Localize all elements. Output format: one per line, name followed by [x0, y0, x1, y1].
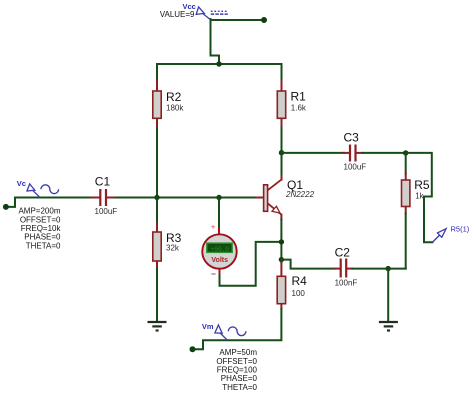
voltmeter minus mark — [211, 273, 215, 275]
wire Vcc vertical with jog to top bus — [211, 19, 220, 63]
svg-text:C2: C2 — [335, 246, 351, 260]
wire input stub from Vc terminal — [6, 198, 15, 207]
junction dot collector node — [279, 150, 284, 155]
value labels Vm parameters — [216, 348, 257, 392]
svg-text:FREQ=10k: FREQ=10k — [21, 224, 62, 233]
value label 180k — [166, 104, 184, 113]
wire C3 row left — [282, 152, 350, 154]
transistor Q1 — [264, 179, 282, 214]
wire R5 top lead — [405, 153, 407, 180]
svg-text:OFFSET=0: OFFSET=0 — [20, 215, 61, 224]
wire R2 top lead — [156, 64, 158, 91]
svg-text:R1: R1 — [291, 89, 307, 103]
wire R3 top lead — [156, 198, 158, 233]
wire voltmeter minus lead and return to emitter — [220, 242, 282, 286]
label Q1 — [287, 178, 303, 192]
svg-text:100uF: 100uF — [344, 163, 367, 172]
value label 100nF — [335, 278, 358, 287]
label Vc — [17, 179, 26, 188]
svg-text:Vc: Vc — [17, 179, 26, 188]
junction dot emitter/voltmeter return — [279, 239, 284, 244]
value label 100 — [292, 289, 306, 298]
wire R1 bottom lead — [281, 119, 283, 153]
value label 32k — [166, 244, 180, 253]
svg-text:OFFSET=0: OFFSET=0 — [216, 357, 257, 366]
svg-text:FREQ=100: FREQ=100 — [217, 366, 258, 375]
wire emitter vertical — [280, 215, 282, 260]
junction dot top bus — [216, 61, 221, 66]
voltage probe R5(1) — [432, 229, 446, 243]
value label 100uF (C1) — [95, 207, 118, 216]
wire base row left of C1 — [15, 197, 100, 199]
svg-text:R2: R2 — [166, 90, 182, 104]
svg-text:C1: C1 — [95, 174, 111, 188]
label R1 — [291, 89, 307, 103]
wire R4 top lead — [280, 260, 282, 277]
value labels Vc parameters — [18, 207, 61, 251]
value label 100uF (C3) — [344, 163, 367, 172]
svg-text:R5(1): R5(1) — [451, 225, 470, 234]
label Vcc — [183, 2, 196, 11]
value label 1.6k — [291, 103, 307, 112]
resistor R1 — [277, 91, 285, 118]
svg-text:R4: R4 — [292, 274, 308, 288]
wire C3 row right — [356, 152, 406, 154]
junction dot C3/R5 node — [403, 150, 408, 155]
svg-text:R5: R5 — [414, 178, 430, 192]
svg-text:+00.0: +00.0 — [211, 246, 229, 253]
svg-text:Vm: Vm — [202, 322, 214, 331]
svg-text:1.6k: 1.6k — [291, 103, 307, 112]
generator Vm probe — [215, 325, 246, 340]
wire R4 bottom lead to Vm — [193, 304, 282, 350]
svg-text:VALUE=9: VALUE=9 — [160, 10, 195, 19]
label R2 — [166, 90, 182, 104]
node dot Vcc wire end — [261, 17, 267, 23]
terminal dot Vm — [190, 346, 196, 352]
svg-text:1k: 1k — [415, 192, 424, 201]
wire output node to probe corner — [406, 153, 433, 242]
svg-text:C3: C3 — [344, 130, 360, 144]
svg-text:100uF: 100uF — [95, 207, 118, 216]
wire base row C1 to Q1 base — [107, 197, 264, 199]
wire R5 bottom lead — [405, 207, 407, 269]
label C1 — [95, 174, 111, 188]
generator Vc probe — [27, 184, 59, 197]
capacitor C3 — [350, 145, 356, 162]
wire C2 to output node — [347, 268, 388, 270]
wire C2 node to R5 bottom — [388, 268, 406, 270]
svg-text:Volts: Volts — [211, 257, 228, 264]
terminal dot Vc — [3, 204, 9, 210]
wire Vcc horizontal top — [211, 19, 265, 21]
ground (below C2 node) — [379, 322, 398, 331]
junction dot C2/ground node — [386, 266, 391, 271]
svg-text:2N2222: 2N2222 — [285, 190, 315, 199]
label R4 — [292, 274, 308, 288]
svg-text:100: 100 — [292, 289, 306, 298]
svg-text:PHASE=0: PHASE=0 — [221, 374, 258, 383]
wire R1 top lead — [281, 64, 283, 91]
wire top supply bus — [157, 63, 282, 65]
label Vm — [202, 322, 214, 331]
junction dot emitter/C2 tap — [279, 257, 284, 262]
resistor R5 — [402, 180, 410, 207]
svg-text:THETA=0: THETA=0 — [222, 383, 257, 392]
resistor R4 — [277, 276, 285, 303]
svg-text:THETA=0: THETA=0 — [26, 241, 61, 250]
wire emitter tap to C2 — [281, 260, 340, 269]
label R3 — [166, 231, 182, 245]
value label VALUE=9 — [160, 10, 195, 19]
resistor R3 — [153, 232, 161, 261]
wire R3 bottom lead to ground — [156, 261, 158, 321]
wire voltmeter plus lead — [218, 198, 220, 235]
svg-text:100nF: 100nF — [335, 278, 358, 287]
capacitor C2 — [341, 259, 347, 278]
junction dot base row voltmeter tap — [216, 195, 221, 200]
wire R2 bottom lead — [156, 119, 158, 198]
svg-text:32k: 32k — [166, 244, 180, 253]
voltmeter plus mark — [211, 223, 216, 232]
ground (below R3) — [148, 322, 167, 331]
wire ground drop at C2 node — [387, 269, 389, 321]
label C2 — [335, 246, 351, 260]
svg-text:PHASE=0: PHASE=0 — [24, 233, 61, 242]
label R5(1) — [451, 225, 470, 234]
svg-text:AMP=50m: AMP=50m — [219, 348, 257, 357]
value label 1k — [415, 192, 424, 201]
power terminal Vcc probe — [196, 7, 228, 20]
label R5 — [414, 178, 430, 192]
voltmeter U1 — [202, 234, 236, 268]
svg-text:180k: 180k — [166, 104, 184, 113]
label C3 — [344, 130, 360, 144]
svg-text:+: + — [211, 223, 216, 232]
junction dot base row R2/R3 — [154, 195, 159, 200]
resistor R2 — [153, 91, 161, 118]
wire collector vertical — [281, 153, 283, 180]
svg-text:AMP=200m: AMP=200m — [18, 207, 60, 216]
value label 2N2222 — [285, 190, 315, 199]
capacitor C1 — [100, 189, 106, 206]
